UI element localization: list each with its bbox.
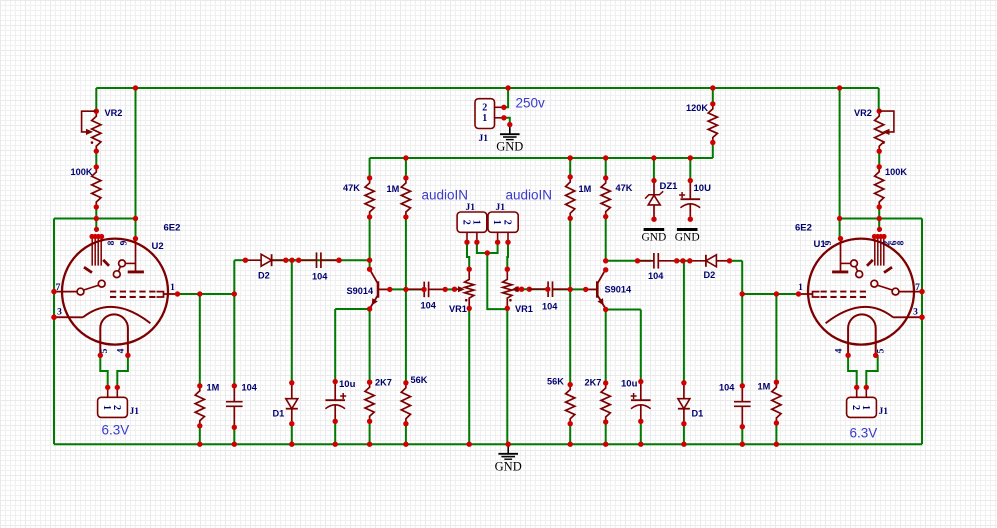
junction pin3 left: [51, 315, 56, 320]
svg-text:2: 2: [482, 103, 487, 114]
junction top bus / plate-left: [133, 85, 138, 90]
junction left base junction: [403, 287, 408, 292]
svg-text:GND: GND: [495, 460, 522, 474]
svg-text:56K: 56K: [547, 377, 564, 387]
svg-text:D1: D1: [692, 409, 704, 419]
junction 104 left bottom pins: [232, 383, 237, 430]
wire audio pinD to VR1-right: [506, 242, 509, 269]
resistor 120K: [708, 101, 717, 145]
label 1M (left top) value: [387, 184, 400, 194]
wire left D2 row corner: [234, 259, 245, 261]
svg-text:VR1: VR1: [515, 304, 533, 314]
label 10u (right) value: [621, 379, 638, 390]
diode D2 (left): [245, 254, 285, 266]
junction cap104R2 right pin: [545, 287, 550, 292]
svg-text:1: 1: [798, 283, 803, 293]
pin label 9 of U2: [120, 240, 130, 245]
wire right emitter row: [606, 309, 641, 311]
junction mid bus / 10U: [688, 155, 693, 160]
svg-text:1: 1: [482, 113, 487, 124]
wire DZ1 top stub: [653, 158, 655, 181]
pin label 3 of U1: [913, 308, 918, 318]
junction cap104L2 left pin: [421, 287, 426, 292]
label 2K7 (left) value: [375, 378, 392, 388]
svg-text:audioIN: audioIN: [422, 188, 469, 203]
label Q left (S9014) value: [347, 286, 374, 296]
svg-text:DZ1: DZ1: [660, 181, 679, 192]
label 10U (top) value: [694, 183, 712, 194]
resistor 100K (left): [92, 164, 101, 209]
label VR1 (left) value: [449, 304, 467, 314]
wire left corner drop: [233, 260, 235, 386]
junction cap104L2 right pin: [443, 287, 448, 292]
wire 10U top stub: [689, 158, 691, 181]
svg-text:4: 4: [117, 348, 127, 353]
junction bus / 2K7-right: [603, 442, 608, 447]
junction bus / VR1-left: [467, 442, 472, 447]
wire left 2K7 drop: [369, 309, 371, 382]
pin label 3 of U2: [57, 308, 62, 318]
wire 47K-right to collector: [605, 217, 607, 261]
label U1: [814, 239, 827, 250]
capacitor 104 (left collector): [299, 252, 339, 268]
label 6E2 left: [164, 223, 181, 234]
wire left cap to VR1 wiper: [445, 288, 456, 290]
junction left rail / 100K: [94, 216, 99, 221]
svg-text:104: 104: [719, 383, 735, 393]
wire center audio ground drop: [487, 253, 507, 309]
label 104 (left collector) value: [312, 272, 328, 282]
svg-text:4: 4: [835, 348, 845, 353]
label 100K (left) value: [71, 167, 93, 177]
svg-text:104: 104: [312, 272, 328, 282]
pin dots D2 right: [674, 258, 732, 263]
wire left 10u drop: [334, 309, 336, 382]
junction cap104 left pins: [336, 258, 341, 263]
wire right bias rail: [840, 218, 922, 220]
label VR2 (left) value: [105, 108, 123, 118]
resistor 2K7 (left): [365, 380, 374, 424]
svg-text:8: 8: [107, 240, 117, 245]
label audioIN right: [506, 188, 553, 203]
wire left heater pin5: [100, 355, 107, 387]
junction bus / 2K7-left: [367, 442, 372, 447]
wire left pin1 row: [178, 293, 235, 295]
pin label 6 of U1: [890, 240, 900, 245]
connector J1 heater (left 6.3V): [98, 397, 128, 417]
pin label 1 of U2: [170, 283, 175, 293]
junction bus / 1M-right-bottom: [774, 442, 779, 447]
pins J1 heater left: [105, 385, 120, 398]
wire right 1M-bottom drop: [775, 294, 777, 382]
ground (bar) DZ1 ground: [644, 228, 665, 231]
svg-text:J1: J1: [496, 203, 506, 213]
wire 47K-left top stub: [369, 158, 371, 178]
wire left 100K to heater: [95, 207, 97, 232]
svg-text:1: 1: [470, 220, 481, 225]
label 6.3V right: [850, 426, 878, 441]
svg-text:104: 104: [242, 383, 258, 393]
junction top bus / 120K: [710, 85, 715, 90]
junction right pin1 / corner: [740, 291, 745, 296]
transistor Q left (S9014): [370, 269, 390, 309]
wire D1-left to bus: [291, 424, 293, 445]
svg-text:10u: 10u: [339, 379, 356, 390]
wire 2K7-right to bus: [605, 422, 607, 444]
diode D2 (right): [690, 255, 730, 267]
label 10U ground GND: [675, 232, 700, 244]
pin label 7 of U2: [56, 283, 61, 293]
junction bus / 1M-left-bottom: [197, 442, 202, 447]
wire 1M-right top stub: [569, 158, 571, 177]
junction left pin1 / 1M: [197, 291, 202, 296]
svg-text:2: 2: [502, 220, 513, 225]
capacitor 10u (left) (polarized): [325, 379, 346, 424]
junction pin3 right: [919, 315, 924, 320]
junction bus / 104-right: [740, 442, 745, 447]
wire audio pinC to center: [487, 242, 497, 253]
wire right heater pin4: [848, 355, 857, 387]
wire D1-right to bus: [683, 424, 685, 445]
wire J1 250v pin1 jog: [504, 118, 510, 125]
label 6.3V left: [102, 423, 130, 438]
potentiometer VR2 left wiper: [82, 111, 97, 144]
wire right heater pin5: [866, 355, 877, 387]
junction right rail / drop: [837, 216, 842, 221]
wire 1M-right-bottom to bus: [775, 423, 777, 444]
wire VR2-left feed: [95, 88, 97, 111]
wire left bias rail: [54, 218, 136, 220]
resistor 56K (right): [566, 382, 575, 427]
junction bus / D1-left: [289, 442, 294, 447]
potentiometer VR1 right wiper: [509, 286, 532, 301]
pin label 5 of U2: [100, 348, 110, 353]
wire left emitter row: [335, 308, 369, 310]
resistor VR1 (right): [503, 267, 512, 311]
wire VR1-right bottom drop: [506, 308, 508, 444]
wire 10u-right to bus: [640, 421, 642, 444]
junction top bus / 250v: [505, 85, 510, 90]
wire right base row: [553, 288, 586, 290]
wire 104-right-bottom to bus: [741, 427, 743, 445]
label 1M (right bottom) value: [758, 382, 771, 392]
pin dots Q left: [367, 258, 393, 312]
pins J1 audioIN left: [464, 232, 479, 245]
wire right pin1 row: [742, 293, 798, 295]
label J1 audioIN left: [466, 203, 476, 213]
wire left D1 drop: [291, 260, 293, 383]
label 100K (right) value: [885, 167, 907, 177]
wire 56K-right to bus: [569, 424, 571, 445]
junction left rail / plate drop: [133, 216, 138, 221]
svg-text:S9014: S9014: [347, 286, 374, 296]
svg-text:1M: 1M: [207, 383, 220, 393]
svg-text:2: 2: [111, 405, 122, 410]
svg-text:8: 8: [897, 240, 907, 245]
svg-text:D2: D2: [258, 271, 270, 281]
label J1 heater right: [879, 407, 889, 417]
wire 120K top stub: [712, 88, 714, 104]
junction 104 right bottom pins: [740, 383, 745, 429]
wire 10u-left to bus: [334, 421, 336, 444]
pin label 8 of U2: [107, 240, 117, 245]
resistor 1M (left bottom): [195, 383, 204, 428]
svg-text:10U: 10U: [694, 183, 712, 194]
junction bus / 10u-right: [638, 442, 643, 447]
svg-text:100K: 100K: [71, 167, 93, 177]
svg-text:J1: J1: [879, 407, 889, 417]
junction pin7 right: [919, 289, 924, 294]
svg-text:3: 3: [57, 308, 62, 318]
svg-text:2: 2: [461, 220, 472, 225]
label 47K (right) value: [616, 183, 633, 193]
junction mid bus / 47K-right: [603, 155, 608, 160]
wire left 1M-bottom drop: [199, 294, 201, 386]
connector J1 audioIN (right): [488, 212, 518, 232]
resistor 47K (left): [365, 175, 374, 219]
label D1 (right) value: [692, 409, 704, 419]
svg-text:GND: GND: [675, 232, 700, 244]
svg-text:D2: D2: [704, 270, 716, 280]
junction mid bus / 1M-right: [568, 155, 573, 160]
pin label 9 of U1: [824, 240, 834, 245]
svg-text:5: 5: [100, 348, 110, 353]
svg-text:GND: GND: [496, 140, 523, 154]
wire left 100K chain: [95, 151, 97, 167]
label 104 (right bottom) value: [719, 383, 735, 393]
svg-text:10u: 10u: [621, 379, 638, 390]
tube U2 (6E2 magic eye): [51, 227, 180, 358]
label 1M (right top) value: [579, 184, 592, 194]
pin dots Q right: [583, 258, 608, 312]
capacitor 10U (top) (polarized): [679, 178, 700, 222]
ground (earth) 250v connector ground: [500, 125, 520, 140]
label VR2 (right) value: [854, 108, 872, 118]
svg-text:1M: 1M: [387, 184, 400, 194]
diode D1 (left): [286, 380, 298, 426]
wire left bias column: [405, 217, 407, 383]
svg-text:2: 2: [850, 405, 861, 410]
svg-text:U2: U2: [152, 241, 164, 252]
label D2 (right) value: [704, 270, 716, 280]
junction audio center: [485, 250, 490, 255]
wire right 2K7 drop: [605, 310, 607, 384]
wire 120K bottom stub: [712, 143, 714, 159]
wire right 100K to heater: [878, 207, 880, 232]
svg-text:3: 3: [913, 308, 918, 318]
ground (bar) 10U ground: [677, 228, 698, 231]
svg-text:D1: D1: [273, 409, 285, 419]
pin label 2 of U1: [883, 240, 893, 245]
label 10u (left) value: [339, 379, 356, 390]
junction right pin1 / 1M: [774, 291, 779, 296]
junction bus / gnd: [506, 442, 511, 447]
resistor 1M (left top): [401, 175, 410, 219]
resistor VR2 (left): [92, 109, 101, 154]
wire left cap-collector link: [286, 259, 299, 261]
zener diode DZ1: [645, 178, 663, 222]
label VR1 (right) value: [515, 304, 533, 314]
label 56K (left) value: [411, 375, 428, 385]
wire 47K-right top stub: [605, 158, 607, 178]
svg-text:100K: 100K: [885, 167, 907, 177]
junction bus / 56K-right: [568, 442, 573, 447]
label DZ1 ground GND: [641, 232, 666, 244]
capacitor 104 (right base): [529, 281, 570, 297]
svg-text:6.3V: 6.3V: [850, 426, 878, 441]
capacitor 104 (left base): [406, 282, 445, 298]
label 250v: [516, 96, 546, 111]
capacitor 104 (left bottom): [226, 386, 243, 428]
svg-text:104: 104: [542, 302, 558, 312]
svg-text:1M: 1M: [758, 382, 771, 392]
wire mid bus: [370, 157, 713, 159]
label J1 250v: [479, 134, 489, 144]
junction left pin1 / corner: [232, 291, 237, 296]
label 104 (left bottom) value: [242, 383, 258, 393]
svg-text:6E2: 6E2: [795, 223, 812, 234]
label D2 (left) value: [258, 271, 270, 281]
label 2K7 (right) value: [585, 378, 602, 388]
label 56K (right) value: [547, 377, 564, 387]
resistor 56K (left): [401, 380, 410, 426]
svg-text:J1: J1: [466, 203, 476, 213]
wire audio pinB to center: [477, 242, 487, 253]
junction bus / D1-right: [681, 442, 686, 447]
wire J1 250v pin2 riser: [504, 88, 508, 107]
resistor 1M (right top): [566, 174, 575, 221]
junction right base junction: [568, 287, 573, 292]
svg-text:56K: 56K: [411, 375, 428, 385]
svg-text:VR1: VR1: [449, 304, 467, 314]
resistor 2K7 (right): [601, 380, 610, 424]
svg-text:1: 1: [860, 405, 871, 410]
label 104 (left base) value: [421, 301, 437, 311]
pin label 5 of U1: [877, 348, 887, 353]
pins J1 250v: [495, 105, 507, 121]
svg-text:1: 1: [101, 405, 112, 410]
pins J1 heater right: [854, 385, 869, 398]
pin label 4 of U1: [835, 348, 845, 353]
wire 1M-left top stub: [405, 158, 407, 178]
wire right collector row: [606, 260, 652, 262]
wire VR2-right feed: [878, 88, 880, 111]
svg-text:audioIN: audioIN: [506, 188, 553, 203]
wire right cap to VR1 wiper: [519, 288, 548, 290]
pin label 8 of U1: [897, 240, 907, 245]
wire right D1 drop: [683, 261, 685, 383]
svg-text:1: 1: [491, 220, 502, 225]
junction bus / 104-left: [232, 442, 237, 447]
wire left collector row: [272, 259, 369, 261]
pin label 7 of U1: [915, 283, 920, 293]
svg-text:1: 1: [170, 283, 175, 293]
capacitor 10u (right) (polarized): [631, 379, 651, 424]
svg-text:VR2: VR2: [854, 108, 872, 118]
wire right D2 to corner: [730, 260, 743, 262]
resistor VR1 (left): [465, 267, 474, 311]
junction pin7 left: [51, 289, 56, 294]
tube U1 (6E2 magic eye): [796, 227, 925, 358]
svg-text:104: 104: [648, 271, 664, 281]
wire right border: [921, 219, 923, 445]
svg-text:S9014: S9014: [605, 285, 632, 295]
svg-text:2K7: 2K7: [375, 378, 392, 388]
potentiometer VR2 right wiper: [879, 111, 894, 144]
wire right plate drop: [839, 88, 841, 238]
connector J1 (250v input): [475, 99, 495, 129]
junction top bus / right drop: [837, 85, 842, 90]
wire 56K-left to bus: [405, 424, 407, 445]
label audioIN left: [422, 188, 469, 203]
label U2: [152, 241, 164, 252]
pin label 1 of U1: [798, 283, 803, 293]
connector J1 heater (right 6.3V): [847, 397, 877, 417]
label 1M (left bottom) value: [207, 383, 220, 393]
svg-text:9: 9: [120, 240, 130, 245]
wire left plate drop: [135, 88, 137, 239]
junction bus / 56K-left: [403, 442, 408, 447]
wire audio pinA to VR1-left: [467, 242, 469, 269]
svg-text:120K: 120K: [686, 103, 708, 113]
svg-text:J1: J1: [479, 134, 489, 144]
wire VR1-left bottom drop: [468, 308, 470, 444]
wire left heater pin4: [117, 355, 128, 387]
wire bottom ground bus: [54, 443, 922, 445]
wire 2K7-left to bus: [369, 421, 371, 444]
label Q right (S9014) value: [605, 285, 632, 295]
pins J1 audioIN right: [495, 232, 511, 245]
svg-text:47K: 47K: [616, 183, 633, 193]
svg-text:2K7: 2K7: [585, 378, 602, 388]
label main ground GND: [495, 460, 522, 474]
wire 104-left-bottom to bus: [233, 427, 235, 444]
label D1 (left) value: [273, 409, 285, 419]
label 250v connector ground GND: [496, 140, 523, 154]
capacitor 104 (right collector): [638, 253, 677, 269]
wire right 100K chain: [878, 151, 880, 167]
wire right corner drop: [741, 261, 743, 386]
label 120K value: [686, 103, 708, 113]
junction 250v gnd: [507, 122, 512, 127]
svg-text:5: 5: [877, 348, 887, 353]
junction right rail / 100K: [877, 216, 882, 221]
svg-text:250v: 250v: [516, 96, 546, 111]
svg-text:1M: 1M: [579, 184, 592, 194]
label DZ1: [660, 181, 679, 192]
label 104 (right base) value: [542, 302, 558, 312]
resistor 47K (right): [601, 175, 610, 219]
svg-text:6E2: 6E2: [164, 223, 181, 234]
svg-text:VR2: VR2: [105, 108, 123, 118]
transistor Q right (S9014): [585, 269, 605, 309]
ground (earth) main ground: [498, 444, 518, 459]
capacitor 104 (right bottom): [734, 386, 751, 427]
svg-text:GND: GND: [641, 232, 666, 244]
label 6E2 right: [795, 223, 812, 234]
svg-text:6.3V: 6.3V: [102, 423, 130, 438]
junction mid bus / DZ1: [651, 155, 656, 160]
resistor VR2 (right): [875, 108, 884, 153]
resistor 1M (right bottom): [772, 380, 781, 426]
label J1 heater left: [130, 407, 140, 417]
wire 1M-left-bottom to bus: [199, 426, 201, 444]
resistor 100K (right): [875, 164, 884, 210]
junction mid bus / 1M-left: [403, 155, 408, 160]
wire right bias column: [569, 217, 571, 385]
potentiometer VR1 left wiper: [452, 286, 468, 301]
label 47K (left) value: [343, 183, 360, 193]
